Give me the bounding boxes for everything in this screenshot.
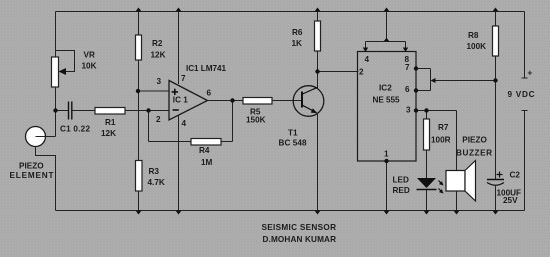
svg-text:R8: R8 [468,31,479,40]
transistor Q1 collector lead [303,87,318,94]
IC2 NE555 box [358,52,417,162]
svg-text:PIEZO: PIEZO [462,136,487,145]
battery terminal tick top [522,77,528,79]
svg-text:1: 1 [384,150,389,159]
wire R2 bottom to pin3 node [138,60,140,91]
svg-text:3: 3 [157,77,162,86]
wire op-amp pin 7 supply [178,12,180,85]
wire IC2 supply drop [386,12,388,42]
svg-text:100K: 100K [467,42,487,51]
wire op-amp pin 4 ground [178,116,180,211]
svg-text:12K: 12K [101,129,116,138]
potentiometer VR wiper [56,51,75,72]
svg-text:R2: R2 [152,39,163,48]
wire R2 top [138,12,140,36]
wire R8 bottom [495,56,497,81]
svg-text:T1: T1 [288,129,298,138]
resistor R6 [315,21,321,51]
resistor R8 [493,26,499,56]
wire IC2 pin 7 out [416,68,431,70]
node pin2 feedback dot [146,108,150,112]
junction bottom rail buzzer [454,211,460,215]
svg-text:12K: 12K [151,51,166,60]
R8 wire arrowhead [431,78,436,83]
capacitor C2 top plate [487,179,504,181]
wire R1 to op-amp pin 2 [125,110,169,112]
wire VR bottom to C1 junction [55,87,57,137]
wire IC2 pin 3 out [416,110,457,112]
svg-text:IC 1: IC 1 [173,96,188,105]
svg-text:+: + [528,69,533,78]
svg-text:BUZZER: BUZZER [456,149,492,158]
junction bottom rail pin1 [384,211,390,215]
capacitor C2 plus sign [497,172,503,178]
svg-text:1M: 1M [201,158,213,167]
svg-text:R7: R7 [438,123,449,132]
LED D1 triangle [417,178,436,188]
battery terminal tick bottom [522,110,528,112]
svg-text:IC1 LM741: IC1 LM741 [186,64,226,73]
svg-text:LED: LED [393,176,409,185]
wire IC2 pin 1 to bottom rail [386,161,388,211]
junction top rail R8 [493,8,499,12]
svg-text:C1 0.22: C1 0.22 [60,125,90,134]
wire pin7-pin6 riser [430,69,432,91]
svg-text:RED: RED [393,186,410,195]
svg-text:4.7K: 4.7K [148,178,165,187]
junction top rail R2 [136,8,142,12]
transistor Q1 circle [293,86,324,117]
svg-text:R4: R4 [199,146,210,155]
node IC2 pin7 dot [414,66,418,70]
op-amp U1 triangle [169,81,208,121]
wire IC2 pin 8 stub [405,42,407,52]
wire IC2 pins 4-8 bridge [366,41,406,43]
svg-text:4: 4 [365,55,370,64]
wire R3 bottom [138,191,140,211]
svg-text:100R: 100R [431,136,451,145]
svg-text:R3: R3 [149,167,160,176]
junction top rail R6 [315,8,321,12]
junction top rail pin7 [176,8,182,12]
svg-text:25V: 25V [503,196,518,205]
wire R8 top [495,12,497,27]
wire R8 node to C2 [495,81,497,180]
wire node pin3 to op-amp [139,90,170,92]
LED D1 cathode bar [417,189,437,191]
wire feedback down from pin2 node [148,111,150,142]
node VR-C1 junction dot [53,108,57,112]
wire top rail [56,11,525,13]
svg-text:6: 6 [207,89,212,98]
junction bottom rail R3 [136,211,142,215]
resistor R5 [243,98,272,105]
svg-text:10K: 10K [82,62,97,71]
node pin3 junction dot [136,89,140,93]
wire left rail upper [55,12,57,58]
svg-text:PIEZO: PIEZO [19,162,44,171]
wire C1 to R1 [72,110,95,112]
svg-text:BC 548: BC 548 [279,139,307,148]
LED light arrow 2 [439,189,443,193]
capacitor C1 plates [69,102,72,120]
potentiometer VR body [52,57,59,87]
wire buzzer bottom [456,191,458,211]
node R8 tap dot [493,78,497,82]
svg-text:7: 7 [405,63,410,72]
wire node to T1 collector [317,72,319,89]
wire op-amp output to R5 [208,100,244,102]
junction bottom rail pin4 [176,211,182,215]
svg-text:2: 2 [359,68,364,77]
svg-text:R1: R1 [105,118,116,127]
wire LED cathode to bottom rail [426,190,428,211]
wire to IC2 pin 6 [416,90,431,92]
node IC2 pin1 dot [384,159,388,163]
junction bottom rail LED [424,211,430,215]
svg-text:2: 2 [156,115,161,124]
node IC2 pin6 dot [414,88,418,92]
piezo element tap line [36,136,56,138]
transistor Q1 emitter arrowhead [311,108,318,113]
wire piezo bottom to bottom rail [36,147,56,211]
resistor R3 [136,161,143,192]
op-amp minus sign [173,109,179,111]
wire R7 to LED [426,150,428,178]
junction IC2 bridge feed [384,38,390,42]
wire R6 bottom to node [317,51,319,72]
IC2 pin 4 arrowhead [363,48,368,53]
potentiometer VR wiper arrowhead [59,68,67,75]
wire node to IC2 pin 2 [318,71,359,73]
wire C1 junction to C1 [56,110,69,112]
wire feedback to R4 [149,141,192,143]
wire R6 top [317,12,319,22]
svg-text:6: 6 [405,85,410,94]
junction top rail IC2 supply [384,8,390,12]
svg-text:SEISMIC SENSOR: SEISMIC SENSOR [262,223,337,232]
wire R8 to pin7 node [434,80,496,82]
wire feedback riser to output [232,101,234,142]
svg-text:1K: 1K [292,39,303,48]
capacitor C2 curved plate [487,183,504,186]
svg-text:D.MOHAN KUMAR: D.MOHAN KUMAR [263,235,337,244]
op-amp plus sign [172,89,178,95]
wire piezo tap [36,136,56,138]
transistor Q1 base bar [301,92,303,108]
svg-text:NE 555: NE 555 [373,96,400,105]
piezo element disc [26,127,46,147]
node IC2 pin3 dot [414,108,418,112]
svg-text:R6: R6 [292,28,303,37]
resistor R7 [424,119,430,150]
wire right rail lower [524,111,526,211]
resistor R4 [191,139,221,146]
piezo buzzer horn [465,161,476,202]
wire R3 top [138,91,140,161]
resistor R2 [136,35,142,60]
node R7 tap dot [424,108,428,112]
svg-text:150K: 150K [246,116,266,125]
transistor Q1 emitter lead [303,105,317,112]
svg-text:IC2: IC2 [379,84,392,93]
wire R4 to riser [221,141,233,143]
svg-text:C2: C2 [510,171,521,180]
svg-text:9 VDC: 9 VDC [508,90,535,99]
wire R7 top stub [426,111,428,120]
node output junction dot [230,98,234,102]
junction bottom rail emitter [315,211,321,215]
wire IC2 pin 4 stub [365,42,367,52]
piezo buzzer driver box [446,171,465,192]
wire C2 to bottom rail [495,186,497,211]
IC2 pin 8 arrowhead [403,48,408,53]
svg-text:4: 4 [182,119,187,128]
resistor R1 [95,108,125,115]
svg-text:7: 7 [181,74,186,83]
junction bottom rail C2 [493,211,499,215]
svg-text:VR: VR [84,51,95,60]
LED light arrow 1 [439,181,443,185]
wire T1 emitter to bottom rail [317,114,319,211]
wire R5 to T1 base [272,100,301,102]
svg-text:3: 3 [406,106,411,115]
wire right rail upper [524,12,526,79]
wire buzzer feed down [456,111,458,171]
node R6 collector dot [315,69,319,73]
svg-text:ELEMENT: ELEMENT [10,171,54,180]
wire bottom rail [56,210,525,212]
